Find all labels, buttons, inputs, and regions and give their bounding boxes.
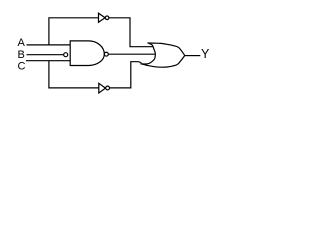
wire NAND U1 output to OR U4 middle input (109, 53, 156, 55)
nand gate U1 body (70, 41, 104, 66)
inverter U2 triangle (top) (99, 13, 106, 22)
wire OR U4 output to Y (185, 55, 201, 57)
inverter U3 triangle (bottom) (99, 83, 106, 93)
wire inverter U3 output to OR U4 bottom input (110, 62, 142, 88)
svg-text:B: B (18, 49, 25, 61)
svg-text:A: A (18, 37, 26, 49)
wire input A to NAND U1 (27, 44, 71, 46)
wire input B to U1 bubble (27, 54, 64, 56)
nand U1 inverted input bubble (B) (64, 53, 68, 57)
wire branch from A up to inverter U2 input (49, 18, 99, 45)
svg-text:C: C (18, 61, 26, 73)
inverter U3 output bubble (106, 86, 110, 90)
nand U1 output bubble (104, 52, 108, 56)
svg-text:Y: Y (201, 47, 210, 61)
wire branch from C down to inverter U3 input (49, 61, 99, 88)
wire input C to NAND U1 (26, 60, 71, 62)
or gate U4 body (141, 43, 185, 67)
inverter U2 output bubble (105, 16, 109, 20)
wire inverter U2 output to OR U4 top input (109, 18, 153, 47)
